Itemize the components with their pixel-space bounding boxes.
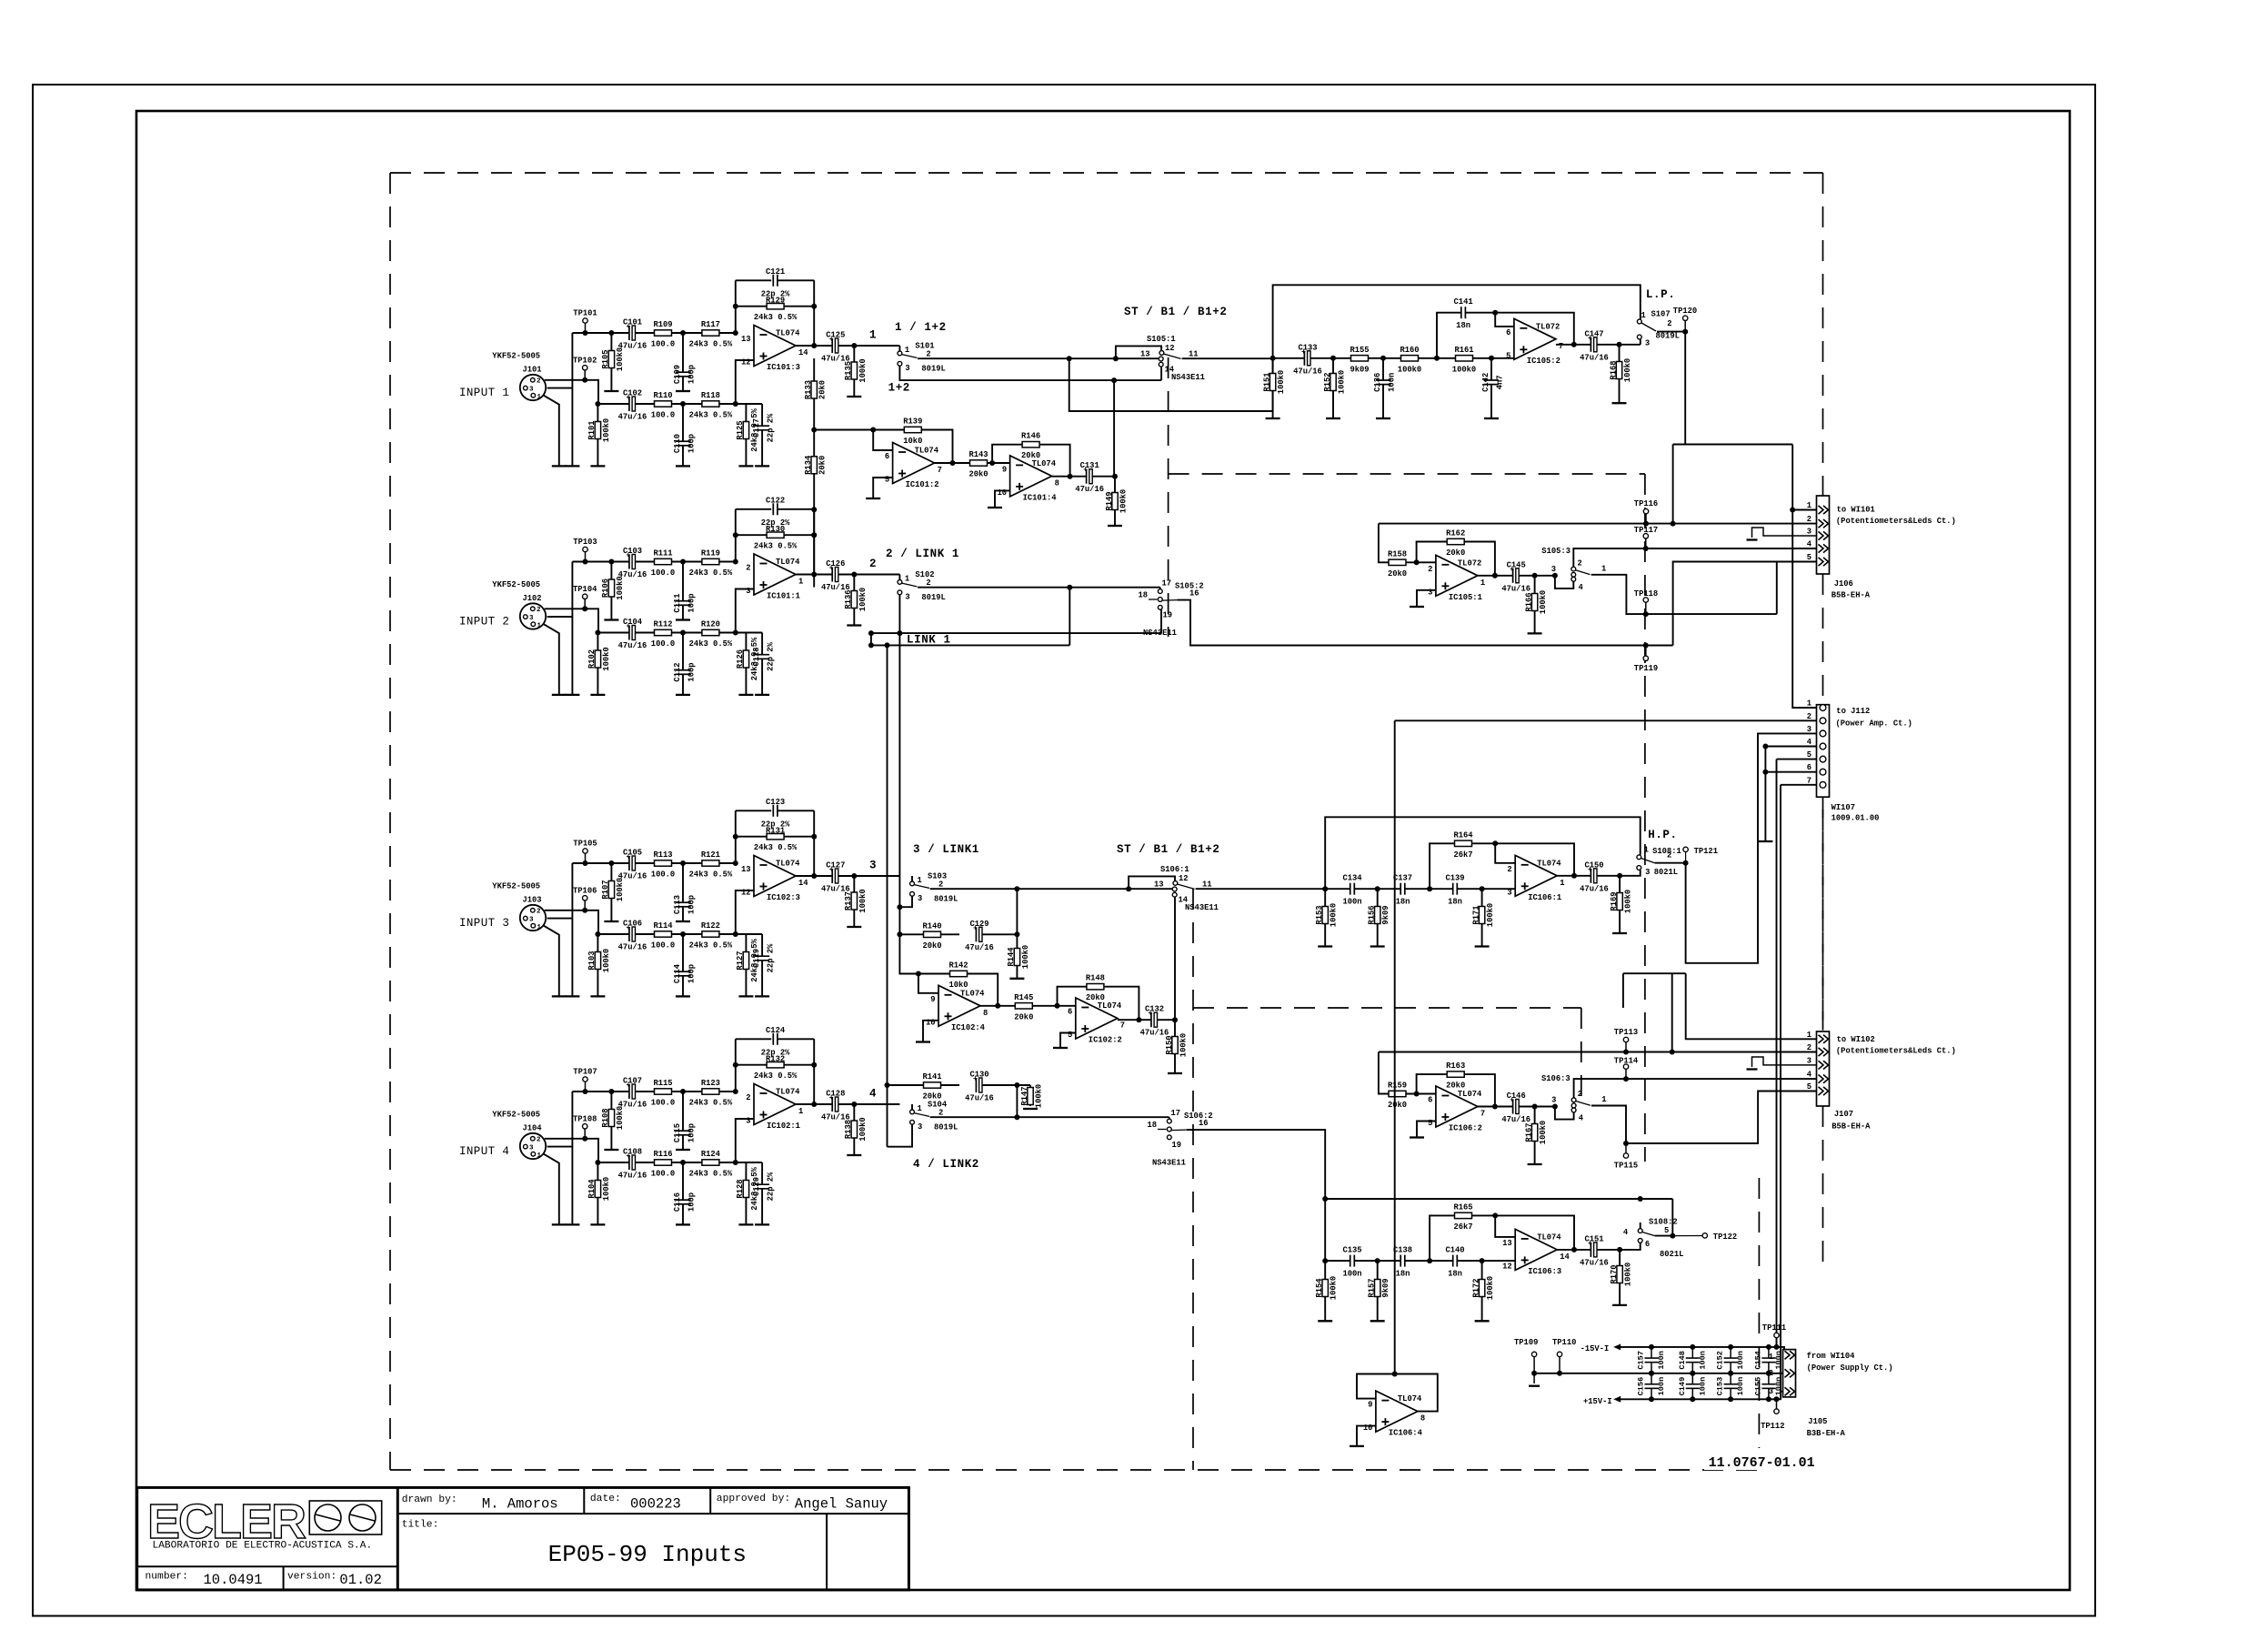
svg-text:3: 3 <box>1807 528 1811 537</box>
svg-text:7: 7 <box>1807 776 1811 785</box>
svg-text:C113: C113 <box>673 895 682 914</box>
svg-text:3: 3 <box>918 894 922 903</box>
svg-text:6: 6 <box>1645 1240 1650 1249</box>
svg-text:R141: R141 <box>922 1072 941 1082</box>
svg-text:100k0: 100k0 <box>1119 489 1129 513</box>
svg-text:20k0: 20k0 <box>922 1092 941 1102</box>
wire <box>571 863 573 996</box>
resistor R165 26k7 (feedback) <box>1430 1215 1574 1261</box>
svg-text:7: 7 <box>1480 1110 1485 1119</box>
wire IC101:2 output <box>935 462 1010 464</box>
wire <box>571 333 573 466</box>
wire top row <box>572 862 737 864</box>
resistor R164 26k7 (feedback) <box>1430 843 1574 889</box>
wire IC102:4 minus input <box>918 974 938 993</box>
svg-text:version:: version: <box>287 1572 336 1583</box>
svg-text:1: 1 <box>918 876 922 885</box>
svg-text:8019L: 8019L <box>921 593 945 602</box>
svg-text:C150: C150 <box>1584 860 1603 870</box>
svg-text:3: 3 <box>1769 1387 1773 1396</box>
svg-text:9k09: 9k09 <box>1381 905 1390 924</box>
resistor R117 24k3 0.5% <box>702 330 719 336</box>
svg-text:C125: C125 <box>826 331 845 340</box>
svg-text:R128: R128 <box>736 1179 745 1198</box>
svg-text:100n: 100n <box>1698 1351 1707 1370</box>
svg-text:R172: R172 <box>1471 1278 1480 1297</box>
svg-text:100.0: 100.0 <box>651 1099 675 1108</box>
svg-text:4: 4 <box>869 1088 877 1101</box>
capacitor C106 47u/16 <box>629 927 636 941</box>
resistor R161 100k0 <box>1456 356 1473 361</box>
svg-text:24k3 0.5%: 24k3 0.5% <box>754 1071 798 1081</box>
svg-text:C120: C120 <box>752 1177 761 1196</box>
wire J112 pin4+6 to ground <box>1765 746 1816 748</box>
svg-text:24k3 0.5%: 24k3 0.5% <box>754 542 798 551</box>
svg-text:R144: R144 <box>1007 947 1016 967</box>
wire S105:3 pin2 U-row (J106 pin4) with TP117 <box>1573 548 1816 567</box>
capacitor C147 47u/16 <box>1591 337 1597 352</box>
svg-text:3: 3 <box>1551 565 1556 574</box>
resistor R122 24k3 0.5% <box>702 931 719 937</box>
testpoint TP117 <box>1643 534 1648 538</box>
junction + resistor R168 100k0 <box>1617 342 1622 347</box>
svg-text:R164: R164 <box>1453 830 1473 840</box>
svg-text:12: 12 <box>741 358 751 367</box>
wire IC106:2 plus to ground <box>1417 1122 1436 1138</box>
svg-text:C153: C153 <box>1716 1377 1725 1396</box>
svg-text:7: 7 <box>1559 342 1563 351</box>
switch S102 8019L <box>898 575 900 580</box>
capacitor C157 100n <box>1651 1347 1652 1358</box>
svg-text:YKF52-5005: YKF52-5005 <box>492 352 540 361</box>
junction <box>595 931 600 937</box>
svg-text:9: 9 <box>1368 1401 1372 1410</box>
svg-text:24k3 0.5%: 24k3 0.5% <box>754 843 798 852</box>
dashed separator v2 <box>1644 474 1646 1162</box>
junction + resistor R156 9k09 <box>1375 886 1380 891</box>
capacitor C151 47u/16 <box>1591 1243 1597 1257</box>
svg-text:2: 2 <box>1667 319 1671 328</box>
resistor R124 24k3 0.5% <box>702 1160 719 1165</box>
svg-text:3: 3 <box>529 386 534 393</box>
wire <box>545 609 598 632</box>
svg-text:R162: R162 <box>1446 529 1465 538</box>
svg-text:18n: 18n <box>1396 1270 1410 1279</box>
svg-text:47u/16: 47u/16 <box>618 1101 647 1110</box>
svg-text:100.0: 100.0 <box>651 639 675 649</box>
op-amp IC106:4 TL074 <box>1376 1391 1418 1432</box>
svg-text:S107: S107 <box>1651 310 1671 319</box>
wire bottom row <box>598 933 762 935</box>
svg-text:100p: 100p <box>687 662 697 681</box>
svg-text:L.P.: L.P. <box>1646 288 1675 301</box>
wire S106:1 output 11 to HP filter <box>1196 888 1326 890</box>
wire <box>545 1139 598 1162</box>
svg-text:TL074: TL074 <box>776 558 800 567</box>
svg-text:R170: R170 <box>1610 1264 1619 1283</box>
svg-text:47u/16: 47u/16 <box>1293 367 1322 376</box>
svg-text:1: 1 <box>537 394 542 401</box>
svg-text:IC101:2: IC101:2 <box>906 480 939 489</box>
svg-text:R115: R115 <box>653 1079 672 1088</box>
wire top row <box>572 1091 737 1092</box>
junction + capacitor C110 100p <box>680 401 686 407</box>
svg-text:100p: 100p <box>687 1192 697 1212</box>
wire output <box>796 875 854 877</box>
wire IC106:1 output <box>1557 875 1619 877</box>
junction + resistor R138 100k0 <box>851 1102 857 1107</box>
svg-text:R160: R160 <box>1400 346 1419 355</box>
svg-text:100k0: 100k0 <box>1398 365 1421 374</box>
svg-text:5: 5 <box>1428 1119 1432 1128</box>
svg-text:100k0: 100k0 <box>1486 903 1495 927</box>
svg-text:R151: R151 <box>1262 372 1271 391</box>
svg-text:C128: C128 <box>826 1090 845 1099</box>
svg-text:TP112: TP112 <box>1761 1422 1784 1431</box>
resistor R104 100k0 <box>597 1162 598 1224</box>
wire LINK 1 row <box>871 632 1161 634</box>
capacitor C141 18n (feedback) <box>1461 307 1466 318</box>
svg-text:C156: C156 <box>1637 1377 1646 1396</box>
svg-text:R153: R153 <box>1315 905 1324 924</box>
svg-text:R119: R119 <box>701 549 720 558</box>
svg-text:C132: C132 <box>1145 1005 1164 1014</box>
junction + capacitor C136 100n <box>1380 356 1386 361</box>
svg-text:R163: R163 <box>1446 1061 1465 1071</box>
junction + resistor R167 100k0 <box>1532 1104 1538 1110</box>
dashed separator v3 <box>1192 889 1194 1470</box>
resistor R119 24k3 0.5% <box>702 558 719 564</box>
wire IC101:4 output <box>1052 476 1115 478</box>
capacitor C156 100n <box>1651 1373 1652 1384</box>
resistor R121 24k3 0.5% <box>702 860 719 866</box>
svg-text:10.0491: 10.0491 <box>204 1572 263 1588</box>
svg-text:5: 5 <box>885 476 889 485</box>
svg-text:R106: R106 <box>601 579 610 598</box>
junction + resistor R135 100k0 <box>851 343 857 348</box>
svg-text:18n: 18n <box>1448 898 1462 907</box>
svg-text:R161: R161 <box>1454 346 1473 355</box>
svg-text:1: 1 <box>1807 501 1811 510</box>
svg-text:J107: J107 <box>1834 1110 1853 1119</box>
dashed separator v5 <box>1758 1178 1760 1448</box>
svg-text:20k0: 20k0 <box>1388 1101 1407 1110</box>
capacitor C135 100n <box>1350 1255 1355 1267</box>
XLR connector J104 <box>520 1133 546 1159</box>
svg-text:9: 9 <box>930 995 935 1004</box>
junction + capacitor C113 100p <box>680 860 686 866</box>
resistor R112 100.0 <box>655 629 672 635</box>
svg-text:B3B-EH-A: B3B-EH-A <box>1807 1429 1846 1438</box>
svg-text:5: 5 <box>1807 750 1811 760</box>
svg-text:10: 10 <box>1363 1424 1373 1433</box>
svg-text:5: 5 <box>1807 553 1811 562</box>
svg-text:13: 13 <box>1154 880 1164 890</box>
svg-text:M. Amoros: M. Amoros <box>482 1496 558 1513</box>
wire LP bypass loop <box>1273 285 1641 358</box>
testpoint TP108 <box>583 1124 587 1129</box>
svg-text:R123: R123 <box>701 1079 720 1088</box>
wire S106:3 output to TP115 row and J107 pin5 <box>1591 1092 1817 1144</box>
svg-text:C133: C133 <box>1298 343 1317 352</box>
wire ch1 direct drop to LP input <box>1069 358 1273 411</box>
svg-text:R104: R104 <box>587 1179 597 1199</box>
junction C141 riser <box>1434 356 1440 361</box>
svg-text:24k3 0.5%: 24k3 0.5% <box>689 411 733 420</box>
svg-text:INPUT 3: INPUT 3 <box>459 917 509 930</box>
wire LINK1 col to minus row <box>899 934 918 973</box>
switch S108:1 8021L <box>1620 870 1641 876</box>
svg-text:R133: R133 <box>804 380 813 399</box>
wire output <box>796 574 854 576</box>
svg-text:C103: C103 <box>623 547 642 556</box>
svg-text:100k0: 100k0 <box>1179 1033 1189 1057</box>
svg-text:13: 13 <box>1140 350 1150 359</box>
junction <box>595 401 600 407</box>
svg-text:47u/16: 47u/16 <box>1075 485 1104 494</box>
capacitor C122 22p 2% (feedback) <box>736 508 771 510</box>
svg-text:100n: 100n <box>1657 1377 1666 1396</box>
ground <box>552 694 567 696</box>
svg-text:LABORATORIO DE ELECTRO-ACUSTIC: LABORATORIO DE ELECTRO-ACUSTICA S.A. <box>153 1541 373 1552</box>
wire -15V rail <box>1616 1347 1784 1355</box>
svg-text:18n: 18n <box>1448 1270 1462 1279</box>
svg-text:100n: 100n <box>1774 1377 1783 1396</box>
svg-text:R124: R124 <box>701 1150 721 1159</box>
svg-text:C114: C114 <box>673 963 682 983</box>
svg-text:C157: C157 <box>1637 1351 1646 1370</box>
junction + resistor R172 100k0 <box>1480 1258 1485 1263</box>
svg-text:TL074: TL074 <box>1032 459 1057 468</box>
junction + capacitor C114 100p <box>680 931 686 937</box>
junction + capacitor C109 100p <box>680 330 686 336</box>
wire <box>1405 888 1453 890</box>
op-amp IC102:4 TL074 <box>938 985 980 1026</box>
wire IC101:2 minus input <box>873 430 892 451</box>
wire S105:1 output 11 to LP filter <box>1182 357 1273 359</box>
junction + capacitor C115 100p <box>680 1089 686 1094</box>
svg-text:47u/16: 47u/16 <box>618 943 647 952</box>
resistor R126 24k3 0.5% <box>745 633 747 695</box>
svg-text:TL074: TL074 <box>776 860 800 869</box>
svg-text:TL074: TL074 <box>1537 1232 1561 1242</box>
svg-text:8: 8 <box>1055 478 1059 488</box>
svg-text:6: 6 <box>1428 1096 1432 1105</box>
svg-text:5: 5 <box>1068 1031 1072 1040</box>
svg-text:5: 5 <box>1664 1226 1669 1235</box>
svg-text:6: 6 <box>1807 763 1811 772</box>
svg-text:2: 2 <box>746 564 750 573</box>
svg-text:100k0: 100k0 <box>602 418 611 442</box>
svg-text:R140: R140 <box>922 921 941 931</box>
wire output <box>796 1103 854 1105</box>
wire IC106:4 feedback loop <box>1357 1374 1438 1412</box>
svg-text:100.0: 100.0 <box>651 941 675 951</box>
svg-text:47u/16: 47u/16 <box>618 1172 647 1181</box>
XLR connector J102 <box>520 603 546 629</box>
resistor R127 24k3 0.5% <box>745 934 747 996</box>
svg-text:20k0: 20k0 <box>922 941 941 951</box>
wire S106:2 output 16 to HP2 filter <box>1187 1130 1326 1261</box>
ground <box>565 465 579 467</box>
svg-text:47u/16: 47u/16 <box>618 872 647 881</box>
testpoint TP116 <box>1643 508 1648 513</box>
capacitor C126 47u/16 <box>832 568 838 582</box>
junction + resistor R170 100k0 <box>1617 1247 1622 1253</box>
junction + wire to plus input <box>733 1160 738 1165</box>
wire S101 pin3 to 1+2 row <box>899 366 1161 380</box>
svg-text:2: 2 <box>1667 850 1671 860</box>
svg-text:R147: R147 <box>1020 1086 1029 1105</box>
svg-text:R152: R152 <box>1323 372 1332 391</box>
op-amp IC105:2 TL072 <box>1514 318 1556 359</box>
svg-text:3: 3 <box>529 916 534 923</box>
svg-text:4: 4 <box>1579 583 1584 592</box>
capacitor C128 47u/16 <box>832 1097 838 1112</box>
svg-text:(Potentiometers&Leds Ct.): (Potentiometers&Leds Ct.) <box>1836 517 1956 526</box>
svg-text:24k3 0.5%: 24k3 0.5% <box>689 1099 733 1108</box>
svg-text:2: 2 <box>1807 712 1811 721</box>
op-amp IC105:1 TL072 <box>1436 555 1478 596</box>
svg-text:C137: C137 <box>1393 874 1412 883</box>
capacitor C127 47u/16 <box>832 869 838 883</box>
svg-text:TL074: TL074 <box>1537 859 1561 868</box>
svg-text:C112: C112 <box>673 662 682 681</box>
svg-text:24k3 0.5%: 24k3 0.5% <box>689 1170 733 1179</box>
svg-text:C152: C152 <box>1716 1351 1725 1370</box>
wire HP1 bypass loop <box>1325 817 1641 889</box>
svg-text:100k0: 100k0 <box>616 1106 625 1130</box>
resistor R109 100.0 <box>655 330 672 336</box>
junction R162 feedback <box>1414 559 1420 565</box>
switch S107 8019L <box>1640 339 1641 345</box>
svg-text:R165: R165 <box>1453 1202 1472 1212</box>
svg-text:R125: R125 <box>736 420 745 439</box>
svg-text:R121: R121 <box>701 850 720 860</box>
svg-text:4 / LINK2: 4 / LINK2 <box>913 1158 979 1171</box>
resistor R102 100k0 <box>597 633 598 695</box>
wire 1+2 row into S105:1 pin14 <box>1111 377 1117 383</box>
op-amp IC101:1 TL074 <box>754 554 796 595</box>
svg-text:ST / B1 / B1+2: ST / B1 / B1+2 <box>1117 843 1219 856</box>
svg-text:24k3 0.5%: 24k3 0.5% <box>689 870 733 880</box>
svg-text:22p 2%: 22p 2% <box>767 641 776 670</box>
svg-text:24k3 0.5%: 24k3 0.5% <box>689 639 733 649</box>
wire <box>542 924 559 996</box>
svg-text:IC106:2: IC106:2 <box>1449 1124 1482 1133</box>
svg-text:2: 2 <box>1807 515 1811 524</box>
svg-text:C110: C110 <box>673 434 682 453</box>
testpoint TP103 <box>583 547 587 551</box>
svg-text:1009.01.00: 1009.01.00 <box>1831 814 1880 823</box>
capacitor C134 100n <box>1350 883 1355 895</box>
svg-text:R108: R108 <box>601 1108 610 1127</box>
wire TP121 output down and to J112 pin3 <box>1686 733 1817 962</box>
svg-text:TL074: TL074 <box>776 329 800 338</box>
svg-text:C109: C109 <box>673 365 682 384</box>
svg-text:2: 2 <box>537 909 541 916</box>
svg-text:47u/16: 47u/16 <box>618 413 647 422</box>
svg-text:100k0: 100k0 <box>602 949 611 972</box>
svg-text:J102: J102 <box>522 594 541 603</box>
svg-text:47u/16: 47u/16 <box>965 1094 994 1103</box>
svg-text:100p: 100p <box>687 365 697 384</box>
capacitor C119 22p 2% <box>761 934 763 956</box>
svg-text:100.0: 100.0 <box>651 1170 675 1179</box>
svg-text:to J112: to J112 <box>1836 707 1870 716</box>
wire TP120 drop + loop to J106 pin1 <box>1684 332 1686 445</box>
svg-text:1: 1 <box>1807 699 1811 709</box>
resistor R115 100.0 <box>655 1089 672 1094</box>
svg-text:100k0: 100k0 <box>616 576 625 599</box>
capacitor C125 47u/16 <box>832 338 838 353</box>
svg-text:C121: C121 <box>766 267 785 277</box>
svg-text:1: 1 <box>1769 1353 1773 1362</box>
capacitor C105 47u/16 <box>629 856 636 870</box>
svg-text:1: 1 <box>537 1152 542 1160</box>
wire mid rail <box>1534 1373 1782 1374</box>
resistor R114 100.0 <box>655 931 672 937</box>
wire output <box>796 345 854 347</box>
svg-text:17: 17 <box>1171 1109 1181 1118</box>
junction <box>733 559 738 565</box>
svg-text:2 / LINK 1: 2 / LINK 1 <box>886 548 959 560</box>
capacitor C103 47u/16 <box>629 555 636 569</box>
svg-text:1: 1 <box>869 329 877 342</box>
svg-text:100k0: 100k0 <box>858 358 868 382</box>
capacitor C108 47u/16 <box>629 1155 636 1170</box>
wire from TP116 row down to R158 <box>1379 524 1389 563</box>
svg-text:to WI102: to WI102 <box>1837 1035 1875 1044</box>
svg-text:2: 2 <box>869 558 877 570</box>
svg-text:IC101:1: IC101:1 <box>767 592 800 601</box>
svg-text:TP111: TP111 <box>1762 1323 1786 1333</box>
svg-text:100n: 100n <box>1342 898 1361 907</box>
svg-text:1: 1 <box>1641 311 1646 320</box>
svg-text:TP122: TP122 <box>1713 1232 1737 1242</box>
switch S103 8019L <box>911 876 913 881</box>
svg-text:date:: date: <box>590 1494 621 1504</box>
ground <box>552 465 567 467</box>
connector J106 B5B-EH-A <box>1817 496 1830 574</box>
svg-text:S102: S102 <box>915 570 934 579</box>
junction + wire up to ch3 line <box>1014 931 1019 937</box>
svg-text:TL072: TL072 <box>1458 558 1481 568</box>
svg-text:100k0: 100k0 <box>858 588 868 611</box>
capacitor C152 100n <box>1730 1347 1731 1358</box>
wire S102 pin3 down to LINK1 row <box>898 595 900 633</box>
svg-text:R169: R169 <box>1610 891 1619 911</box>
wire IC105:1 plus to ground <box>1417 590 1436 607</box>
svg-text:1: 1 <box>1601 565 1606 574</box>
svg-text:C118: C118 <box>752 647 761 666</box>
svg-text:2: 2 <box>926 579 930 588</box>
svg-text:100k0: 100k0 <box>1624 890 1633 913</box>
switch S105:2 NS43E11 <box>1067 585 1072 590</box>
svg-text:100p: 100p <box>687 1123 697 1142</box>
wire IC102:4 output <box>980 1005 1058 1007</box>
svg-text:100k0: 100k0 <box>616 347 625 371</box>
svg-text:R137: R137 <box>844 891 853 911</box>
svg-text:C139: C139 <box>1445 874 1464 883</box>
wire bottom row <box>598 1162 762 1163</box>
svg-text:8019L: 8019L <box>934 1123 958 1132</box>
junction <box>1671 521 1676 527</box>
junction + wire to plus input <box>733 630 738 636</box>
svg-text:47u/16: 47u/16 <box>965 943 994 952</box>
svg-text:R150: R150 <box>1165 1035 1174 1054</box>
wire IC106:4 plus to ground <box>1357 1426 1376 1446</box>
